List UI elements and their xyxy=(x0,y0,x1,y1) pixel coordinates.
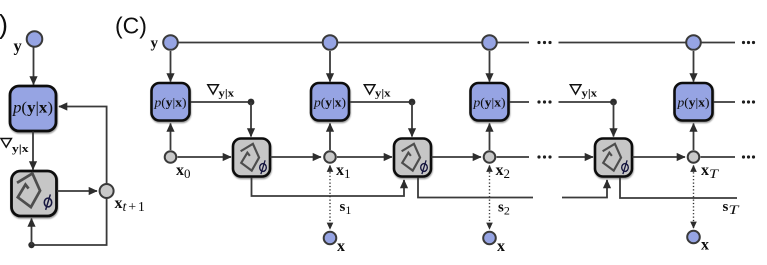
node x_t+1 (gray circle) xyxy=(100,184,114,198)
phi box 1 xyxy=(233,139,270,177)
svg-text:p(y|x): p(y|x) xyxy=(313,96,346,110)
svg-text:x1: x1 xyxy=(336,162,351,181)
node x0 (gray circle) xyxy=(165,151,177,163)
top y rail wire 3 xyxy=(498,42,530,44)
phi glyph T xyxy=(622,160,629,174)
dotted arrow x to x2 xyxy=(489,166,491,230)
node xT (gray circle) xyxy=(688,151,700,163)
dotted arrow x to x1 xyxy=(329,166,331,230)
node x bottom T (blue circle) xyxy=(687,231,700,244)
gradient label nabla T xyxy=(570,85,597,100)
svg-text:xt+1: xt+1 xyxy=(115,195,145,215)
top y rail wire 2 xyxy=(338,42,482,44)
node y (panel B blue circle) xyxy=(27,31,43,47)
svg-text:y: y xyxy=(151,36,159,52)
phi box 2 xyxy=(394,139,431,177)
wire x_t+1 up and into p(y|x) B right side xyxy=(59,107,107,184)
p(y|x) box 3 xyxy=(471,83,509,121)
p(y|x) box 2 xyxy=(311,83,349,121)
gradient wire p4 rightward xyxy=(714,101,736,103)
wire y1 to p1 xyxy=(170,51,172,82)
gradient label nabla 2 xyxy=(364,85,390,100)
gradient arrow dot2 into phi2 xyxy=(411,102,413,137)
wire p(y|x) B to phi B (gradient arrow) xyxy=(32,132,34,170)
junction dot B xyxy=(28,242,34,248)
svg-text:y|x: y|x xyxy=(375,89,391,100)
svg-text:p(y|x): p(y|x) xyxy=(12,100,53,117)
wire phi B to node x_t+1 xyxy=(57,190,97,192)
svg-text:y|x: y|x xyxy=(12,144,29,155)
wire x2 rightward xyxy=(497,156,530,158)
phi glyph 1 xyxy=(260,160,267,174)
ellipsis gradient rail left xyxy=(537,100,551,103)
wire x_t+1 down to bottom rail B xyxy=(32,199,107,245)
phi glyph B xyxy=(44,194,51,209)
svg-text:p(y|x): p(y|x) xyxy=(472,96,505,110)
ellipsis top rail right xyxy=(742,41,755,44)
junction dot 2 xyxy=(409,99,416,106)
phi icon 2 xyxy=(399,142,422,171)
gradient wire p2 to dot2 xyxy=(350,101,412,103)
node x2 (gray circle) xyxy=(484,151,496,163)
s2 rail right part into phiT xyxy=(562,180,607,198)
phi icon B xyxy=(14,171,43,208)
dotted arrow x to xT xyxy=(693,166,695,229)
node x bottom 1 (blue circle) xyxy=(324,232,337,245)
top y rail wire 4 xyxy=(559,42,686,44)
node x1 (gray circle) xyxy=(324,151,336,163)
s2 rail left part xyxy=(418,178,533,198)
gradient label nabla 1 xyxy=(208,85,234,100)
node y1 (blue circle) xyxy=(163,35,178,50)
wire phi2 to x2 xyxy=(432,156,482,158)
p(y|x) box 4 xyxy=(675,83,713,121)
ellipsis x rail right xyxy=(742,155,755,158)
p(y|x) box B xyxy=(10,86,56,131)
wire xT rightward xyxy=(701,156,736,158)
gradient wire into dotT xyxy=(559,101,614,103)
wire into phiT xyxy=(559,156,594,158)
wire x0 to phi1 xyxy=(178,156,232,158)
wire x1 to phi2 xyxy=(337,156,392,158)
wire xT up into p4 xyxy=(693,124,695,151)
s1 rail: phi1 bottom to phi2 bottom xyxy=(252,178,405,197)
gradient wire p3 rightward xyxy=(510,101,530,103)
ellipsis gradient rail right xyxy=(742,100,755,103)
gradient label nabla y|x (panel B) xyxy=(1,139,29,156)
junction dot T xyxy=(610,99,617,106)
svg-text:s2: s2 xyxy=(498,200,510,218)
junction dot 1 xyxy=(248,99,255,106)
svg-text:x: x xyxy=(497,238,505,255)
top y rail wire 1 xyxy=(179,42,323,44)
ellipsis top rail left xyxy=(537,41,551,44)
node y4 (blue circle) xyxy=(686,35,701,50)
wire x1 up into p2 xyxy=(329,124,331,151)
svg-text:xT: xT xyxy=(701,162,719,181)
wire junction up into phi B bottom xyxy=(31,219,33,246)
svg-text:x: x xyxy=(701,237,709,254)
wire x2 up into p3 xyxy=(489,124,491,151)
phi box B xyxy=(12,171,57,216)
gradient wire p1 to dot1 xyxy=(191,101,252,103)
wire y to p(y|x) B xyxy=(33,48,35,85)
node y2 (blue circle) xyxy=(323,35,338,50)
svg-text:sT: sT xyxy=(723,199,740,217)
svg-text:s1: s1 xyxy=(340,199,352,217)
node y3 (blue circle) xyxy=(482,35,497,50)
svg-text:x: x xyxy=(337,238,345,255)
sT rail xyxy=(620,178,737,199)
gradient arrow dot1 into phi1 xyxy=(250,102,252,137)
svg-text:y|x: y|x xyxy=(219,89,235,100)
p(y|x) box 1 xyxy=(152,83,190,121)
top y rail wire 5 xyxy=(702,42,736,44)
svg-text:y|x: y|x xyxy=(582,89,598,100)
svg-text:x2: x2 xyxy=(496,162,511,181)
svg-text:p(y|x): p(y|x) xyxy=(153,96,186,110)
node x bottom 2 (blue circle) xyxy=(483,232,496,245)
ellipsis x rail left xyxy=(537,155,551,158)
wire y3 to p3 xyxy=(489,51,491,82)
phi icon T xyxy=(600,142,623,171)
svg-text:y: y xyxy=(14,37,23,56)
wire y4 to p4 xyxy=(693,51,695,82)
wire x0 up into p1 xyxy=(170,124,172,151)
phi box T xyxy=(595,139,632,177)
wire phiT to xT xyxy=(633,156,686,158)
svg-text:p(y|x): p(y|x) xyxy=(676,96,709,110)
phi glyph 2 xyxy=(421,160,428,174)
svg-text:x0: x0 xyxy=(176,162,191,181)
svg-text:(C): (C) xyxy=(115,13,147,39)
phi icon 1 xyxy=(238,142,261,171)
wire phi1 to x1 xyxy=(271,156,322,158)
wire y2 to p2 xyxy=(329,51,331,82)
svg-text:): ) xyxy=(0,10,8,40)
gradient arrow dotT into phiT xyxy=(613,102,615,137)
